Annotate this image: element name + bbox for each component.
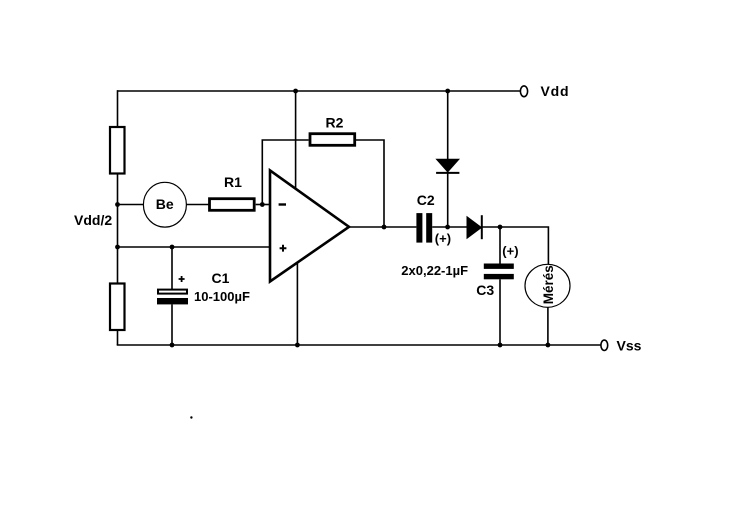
wire R2 to output bbox=[356, 140, 384, 227]
svg-text:C1: C1 bbox=[212, 270, 230, 286]
svg-text:2x0,22-1µF: 2x0,22-1µF bbox=[401, 263, 468, 278]
source Be bbox=[143, 182, 186, 227]
capacitor C1 plus plate bbox=[158, 290, 187, 294]
node top rail supply bbox=[293, 89, 298, 94]
svg-text:(+): (+) bbox=[502, 244, 518, 259]
resistor lower divider bbox=[110, 284, 125, 331]
wire op-amp top supply bbox=[295, 91, 297, 188]
wire C1 bottom bbox=[171, 304, 173, 345]
node diode branch bbox=[445, 225, 450, 230]
stray dot bbox=[190, 416, 192, 418]
resistor R2 bbox=[310, 134, 355, 146]
node Be row bbox=[115, 202, 120, 207]
diode D1 cathode bar bbox=[436, 172, 459, 174]
wire C2 to diode bbox=[432, 226, 467, 228]
wire plus row bbox=[118, 246, 270, 248]
resistor R1 bbox=[210, 199, 255, 211]
capacitor C2 left plate bbox=[416, 213, 422, 243]
wire Be row left bbox=[118, 204, 144, 206]
diode D2 cathode bar bbox=[481, 215, 483, 239]
node C3 tap bbox=[498, 225, 503, 230]
label minus input bbox=[279, 203, 286, 205]
svg-text:C3: C3 bbox=[476, 282, 494, 298]
wire diode to Meres bbox=[482, 227, 549, 264]
wire C3 top bbox=[499, 227, 501, 264]
wire Meres bottom bbox=[547, 307, 549, 345]
capacitor C2 right plate bbox=[426, 213, 432, 243]
op-amp U1 bbox=[270, 170, 349, 281]
node top rail diode branch bbox=[445, 89, 450, 94]
svg-text:(+): (+) bbox=[435, 231, 451, 246]
node C3 ground bbox=[498, 343, 503, 348]
node inverting input bbox=[260, 202, 265, 207]
wire op-amp bottom supply bbox=[296, 263, 298, 346]
wire Be to R1 bbox=[187, 204, 209, 206]
svg-text:Be: Be bbox=[156, 196, 174, 212]
terminal Vdd bbox=[520, 86, 527, 97]
diode D1 vertical bbox=[437, 159, 459, 172]
node bottom rail supply bbox=[295, 343, 300, 348]
wire bottom rail Vss bbox=[117, 344, 601, 346]
wire C1 top bbox=[171, 247, 173, 289]
capacitor C3 top plate bbox=[484, 264, 514, 269]
svg-text:C2: C2 bbox=[417, 192, 435, 208]
diode D2 series bbox=[467, 217, 481, 238]
node feedback-output bbox=[382, 225, 387, 230]
capacitor C1 minus plate bbox=[157, 298, 188, 304]
svg-text:10-100µF: 10-100µF bbox=[194, 289, 250, 304]
capacitor C3 bottom plate bbox=[484, 274, 514, 279]
svg-text:Mérés: Mérés bbox=[541, 265, 556, 304]
meter Meres bbox=[525, 264, 570, 307]
svg-text:R1: R1 bbox=[224, 174, 242, 190]
wire left vertical top bbox=[117, 90, 119, 127]
node C1 tap bbox=[170, 245, 175, 250]
wire Vdd diode branch vertical bbox=[447, 91, 449, 227]
wire R1 to node bbox=[256, 204, 269, 206]
wire C3 bottom bbox=[499, 279, 501, 345]
svg-text:R2: R2 bbox=[326, 115, 344, 131]
node Meres ground bbox=[546, 343, 551, 348]
wire feedback up from node bbox=[262, 140, 308, 205]
svg-text:Vdd/2: Vdd/2 bbox=[74, 212, 112, 228]
wire below lower resistor bbox=[117, 330, 119, 345]
node plus row bbox=[115, 245, 120, 250]
wire below upper resistor bbox=[117, 174, 119, 248]
wire output row bbox=[349, 226, 416, 228]
svg-text:Vss: Vss bbox=[617, 338, 642, 354]
svg-text:Vdd: Vdd bbox=[541, 83, 570, 99]
terminal Vss bbox=[601, 340, 608, 350]
node C1 ground bbox=[170, 343, 175, 348]
wire top rail Vdd bbox=[117, 90, 520, 92]
resistor upper divider bbox=[110, 127, 125, 174]
label plus input bbox=[280, 245, 287, 252]
wire below plus row bbox=[117, 247, 119, 284]
label C1 plus sign bbox=[179, 276, 185, 282]
